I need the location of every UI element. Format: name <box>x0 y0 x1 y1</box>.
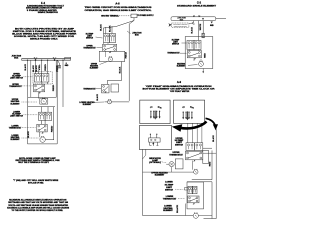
lower hi-temp limit switch <box>39 112 46 120</box>
wire thermostat to element <box>38 92 40 99</box>
lower thermostat A-9 <box>188 196 200 203</box>
meter terminals 1 <box>150 111 151 112</box>
junction dots <box>27 60 28 61</box>
svg-text:JUNCTION: JUNCTION <box>177 18 186 20</box>
svg-text:OPERATION, HAS SINGLE HIGH LIM: OPERATION, HAS SINGLE HIGH LIMIT CONTROL <box>85 9 153 12</box>
svg-text:BLACK: BLACK <box>35 65 38 72</box>
wires down to limit switch <box>102 28 104 34</box>
svg-text:BLACK: BLACK <box>118 66 121 73</box>
time clock symbol <box>149 138 161 142</box>
wires meter2 to upper limit switch <box>187 123 189 143</box>
svg-text:BLACK: BLACK <box>32 65 35 72</box>
meter terminals 2 <box>183 111 184 112</box>
lower thermostat <box>37 124 47 132</box>
wire drops to limit switch <box>35 60 37 74</box>
wire right rail A-9 <box>215 128 217 219</box>
svg-text:LIMIT SWITCH: LIMIT SWITCH <box>10 116 24 118</box>
hi-temp limit switch C-2 <box>187 41 194 50</box>
svg-text:SWITCH: SWITCH <box>86 38 94 40</box>
wire bar to edge C-2 <box>216 18 226 20</box>
lower heating element A-6 <box>108 100 112 104</box>
svg-text:C-2: C-2 <box>197 1 202 5</box>
svg-text:ELEMENT: ELEMENT <box>11 103 21 105</box>
tank outer wall lower <box>211 182 213 219</box>
svg-text:BLACK: BLACK <box>96 93 99 100</box>
svg-text:MAXIMUM ALLOWABLE SIMULTANEOUS: MAXIMUM ALLOWABLE SIMULTANEOUS OPERATION <box>9 199 67 202</box>
svg-text:L2: L2 <box>198 15 200 17</box>
wire: feed from terminal block <box>133 18 135 21</box>
wire bottom rail <box>28 143 58 145</box>
upper tank bottom <box>192 179 212 181</box>
heating element C-2 <box>199 62 204 67</box>
svg-text:THERMOSTAT: THERMOSTAT <box>9 127 22 130</box>
wires C-2 inside tank <box>189 50 191 51</box>
lower hi-temp limit switch A-9 <box>188 186 193 193</box>
svg-text:L1: L1 <box>193 15 195 17</box>
wire nut junction 1 <box>35 59 37 61</box>
svg-text:LOWER: LOWER <box>165 182 173 184</box>
rail B stub <box>145 149 147 155</box>
svg-text:THERMOSTAT: THERMOSTAT <box>169 153 184 156</box>
wire thermostat down black <box>184 204 186 216</box>
svg-text:HI-TEMP: HI-TEMP <box>165 184 175 186</box>
svg-text:F-4: F-4 <box>41 1 45 5</box>
svg-text:SWITCH: SWITCH <box>172 44 180 46</box>
tank wall box right of thermostat <box>203 150 209 163</box>
gnd symbol C-2 <box>211 22 213 24</box>
wire lower element row A-6 <box>105 101 108 103</box>
svg-text:A-9: A-9 <box>177 80 182 84</box>
lower heating element <box>40 137 45 142</box>
svg-text:WATTAGES AND THAT 240 VOLTS MO: WATTAGES AND THAT 240 VOLTS MODIFIED AND… <box>8 201 68 204</box>
wire right rail lower <box>53 107 55 140</box>
wire: junction box feed (double line) <box>22 58 71 60</box>
wires from junction box down <box>192 21 194 23</box>
upper heating element <box>41 99 46 104</box>
upper hi-temp limit switch A-9 <box>186 143 194 151</box>
svg-text:BLACK: BLACK <box>190 26 193 33</box>
svg-text:STANDARD SINGLE ELEMENT: STANDARD SINGLE ELEMENT <box>177 5 217 8</box>
strain relief ticks <box>192 22 195 23</box>
upper heating element A-9 <box>194 170 198 174</box>
thermostat C-2 <box>187 51 201 58</box>
wire: ground drop <box>58 60 60 63</box>
indicator lamp <box>169 162 174 167</box>
wire thermostat to rail <box>203 152 216 154</box>
svg-text:(OPTIONAL): (OPTIONAL) <box>149 161 161 164</box>
svg-text:BLACK: BLACK <box>27 131 30 138</box>
wire: right rail RED <box>62 60 64 107</box>
svg-text:THERMOSTAT: THERMOSTAT <box>167 52 180 55</box>
svg-text:IN PLACE OF RED.: IN PLACE OF RED. <box>28 182 44 185</box>
wires lower A-9 bottom <box>143 215 194 217</box>
svg-text:A-6: A-6 <box>115 1 120 5</box>
svg-text:EXCEEDS ALLOWABLE AMP DRAW AND: EXCEEDS ALLOWABLE AMP DRAW AND WILL CAUS… <box>7 207 70 210</box>
optional switch dashed box <box>172 23 189 27</box>
time clock box <box>139 126 171 150</box>
meter box 1 <box>140 100 170 124</box>
wire right rail A-6 <box>128 24 130 101</box>
upper heating element A-6 <box>108 57 112 61</box>
svg-text:BLACK: BLACK <box>212 135 215 142</box>
svg-text:BLACK: BLACK <box>24 63 27 70</box>
ground terminal box F-4 <box>65 57 71 60</box>
svg-text:ELEMENT: ELEMENT <box>155 175 166 177</box>
big curved arrow to time clock <box>180 122 207 129</box>
wire from time clock down (rail A) <box>142 149 144 215</box>
ground terminal block <box>131 14 137 18</box>
svg-text:SINGLE PHASED ONLY.: SINGLE PHASED ONLY. <box>30 37 59 40</box>
arrow to optional switch <box>168 23 171 27</box>
svg-text:SWITCH: SWITCH <box>165 190 174 192</box>
breaker on wire C-2 <box>202 33 205 38</box>
dashed enclosure upper limit switch <box>33 72 52 84</box>
upper thermostat A-6 <box>103 44 117 51</box>
svg-text:ONLY THE 2 TERMINALS ON LEFT.: ONLY THE 2 TERMINALS ON LEFT. <box>18 161 50 164</box>
svg-text:THERMOSTAT: THERMOSTAT <box>163 198 178 201</box>
tank upper compartment A-6 <box>99 51 124 61</box>
svg-text:TO POWER SUPPLY: TO POWER SUPPLY <box>137 15 154 17</box>
curved arrow right side <box>206 118 216 126</box>
svg-text:SWITCH: SWITCH <box>175 144 184 146</box>
svg-text:LIMIT SWITCH: LIMIT SWITCH <box>10 78 24 80</box>
svg-text:ELEMENT: ELEMENT <box>163 210 174 212</box>
wire stubs into lower switch <box>184 187 188 189</box>
svg-text:WHITE: WHITE <box>200 23 202 30</box>
svg-text:ELEMENT: ELEMENT <box>83 104 92 106</box>
wire element to lower thermostat <box>121 62 123 81</box>
lower thermostat A-6 <box>102 84 109 93</box>
indicator lamp housing <box>175 159 183 169</box>
svg-text:THERMOSTAT: THERMOSTAT <box>9 85 22 88</box>
wire element row A-9 <box>143 171 194 173</box>
stub below tank C-2 <box>202 69 204 72</box>
svg-text:GROUND TERMINAL: GROUND TERMINAL <box>101 14 120 17</box>
meter box 2 <box>174 100 205 123</box>
tank outline A-9 lower inner <box>187 182 204 209</box>
wire: inner left rail <box>30 60 32 97</box>
wire thermostat to element <box>192 161 194 170</box>
svg-text:THERMOSTAT: THERMOSTAT <box>83 87 96 90</box>
upper thermostat <box>34 84 45 92</box>
svg-text:BLACK: BLACK <box>100 24 103 31</box>
svg-text:BLACK: BLACK <box>108 25 111 32</box>
svg-text:BOX: BOX <box>180 19 184 21</box>
svg-text:SIMULTANEOUS: SIMULTANEOUS <box>38 11 59 14</box>
wire nut junction 2 <box>54 59 56 61</box>
svg-text:TO THE SUPPLY BUFFER OR WOULD: TO THE SUPPLY BUFFER OR WOULD RESULT IN … <box>12 210 64 212</box>
upper thermostat A-9 <box>186 151 203 160</box>
svg-text:VOLTS: ANY WATTAGE USAGE HIGHE: VOLTS: ANY WATTAGE USAGE HIGHER THAN INT… <box>8 204 69 207</box>
svg-text:ELEMENT: ELEMENT <box>11 139 21 141</box>
wire: left rail BLACK <box>27 60 29 144</box>
tank wall lower A-6 <box>111 84 119 92</box>
svg-text:ELEMENT: ELEMENT <box>90 68 99 70</box>
tank outline C-2 <box>185 37 213 69</box>
svg-text:ELEMENT: ELEMENT <box>177 66 186 68</box>
lower heating element A-9 <box>193 213 198 218</box>
hi-temp limit switch A-6 <box>104 34 110 43</box>
svg-text:(SEE NOTE BELOW): (SEE NOTE BELOW) <box>174 26 188 28</box>
upper hi-temp limit switch <box>34 74 41 82</box>
svg-text:BLACK: BLACK <box>176 204 179 213</box>
svg-text:TWO WIRE CIRCUIT FOR NON-SIMUL: TWO WIRE CIRCUIT FOR NON-SIMULTANEOUS <box>85 6 153 9</box>
svg-text:THERMOSTAT: THERMOSTAT <box>83 47 96 50</box>
wire upper element row <box>28 96 56 98</box>
svg-text:'OFF PEAK' METER: 'OFF PEAK' METER <box>170 90 190 93</box>
junction box C-2 <box>171 17 216 21</box>
